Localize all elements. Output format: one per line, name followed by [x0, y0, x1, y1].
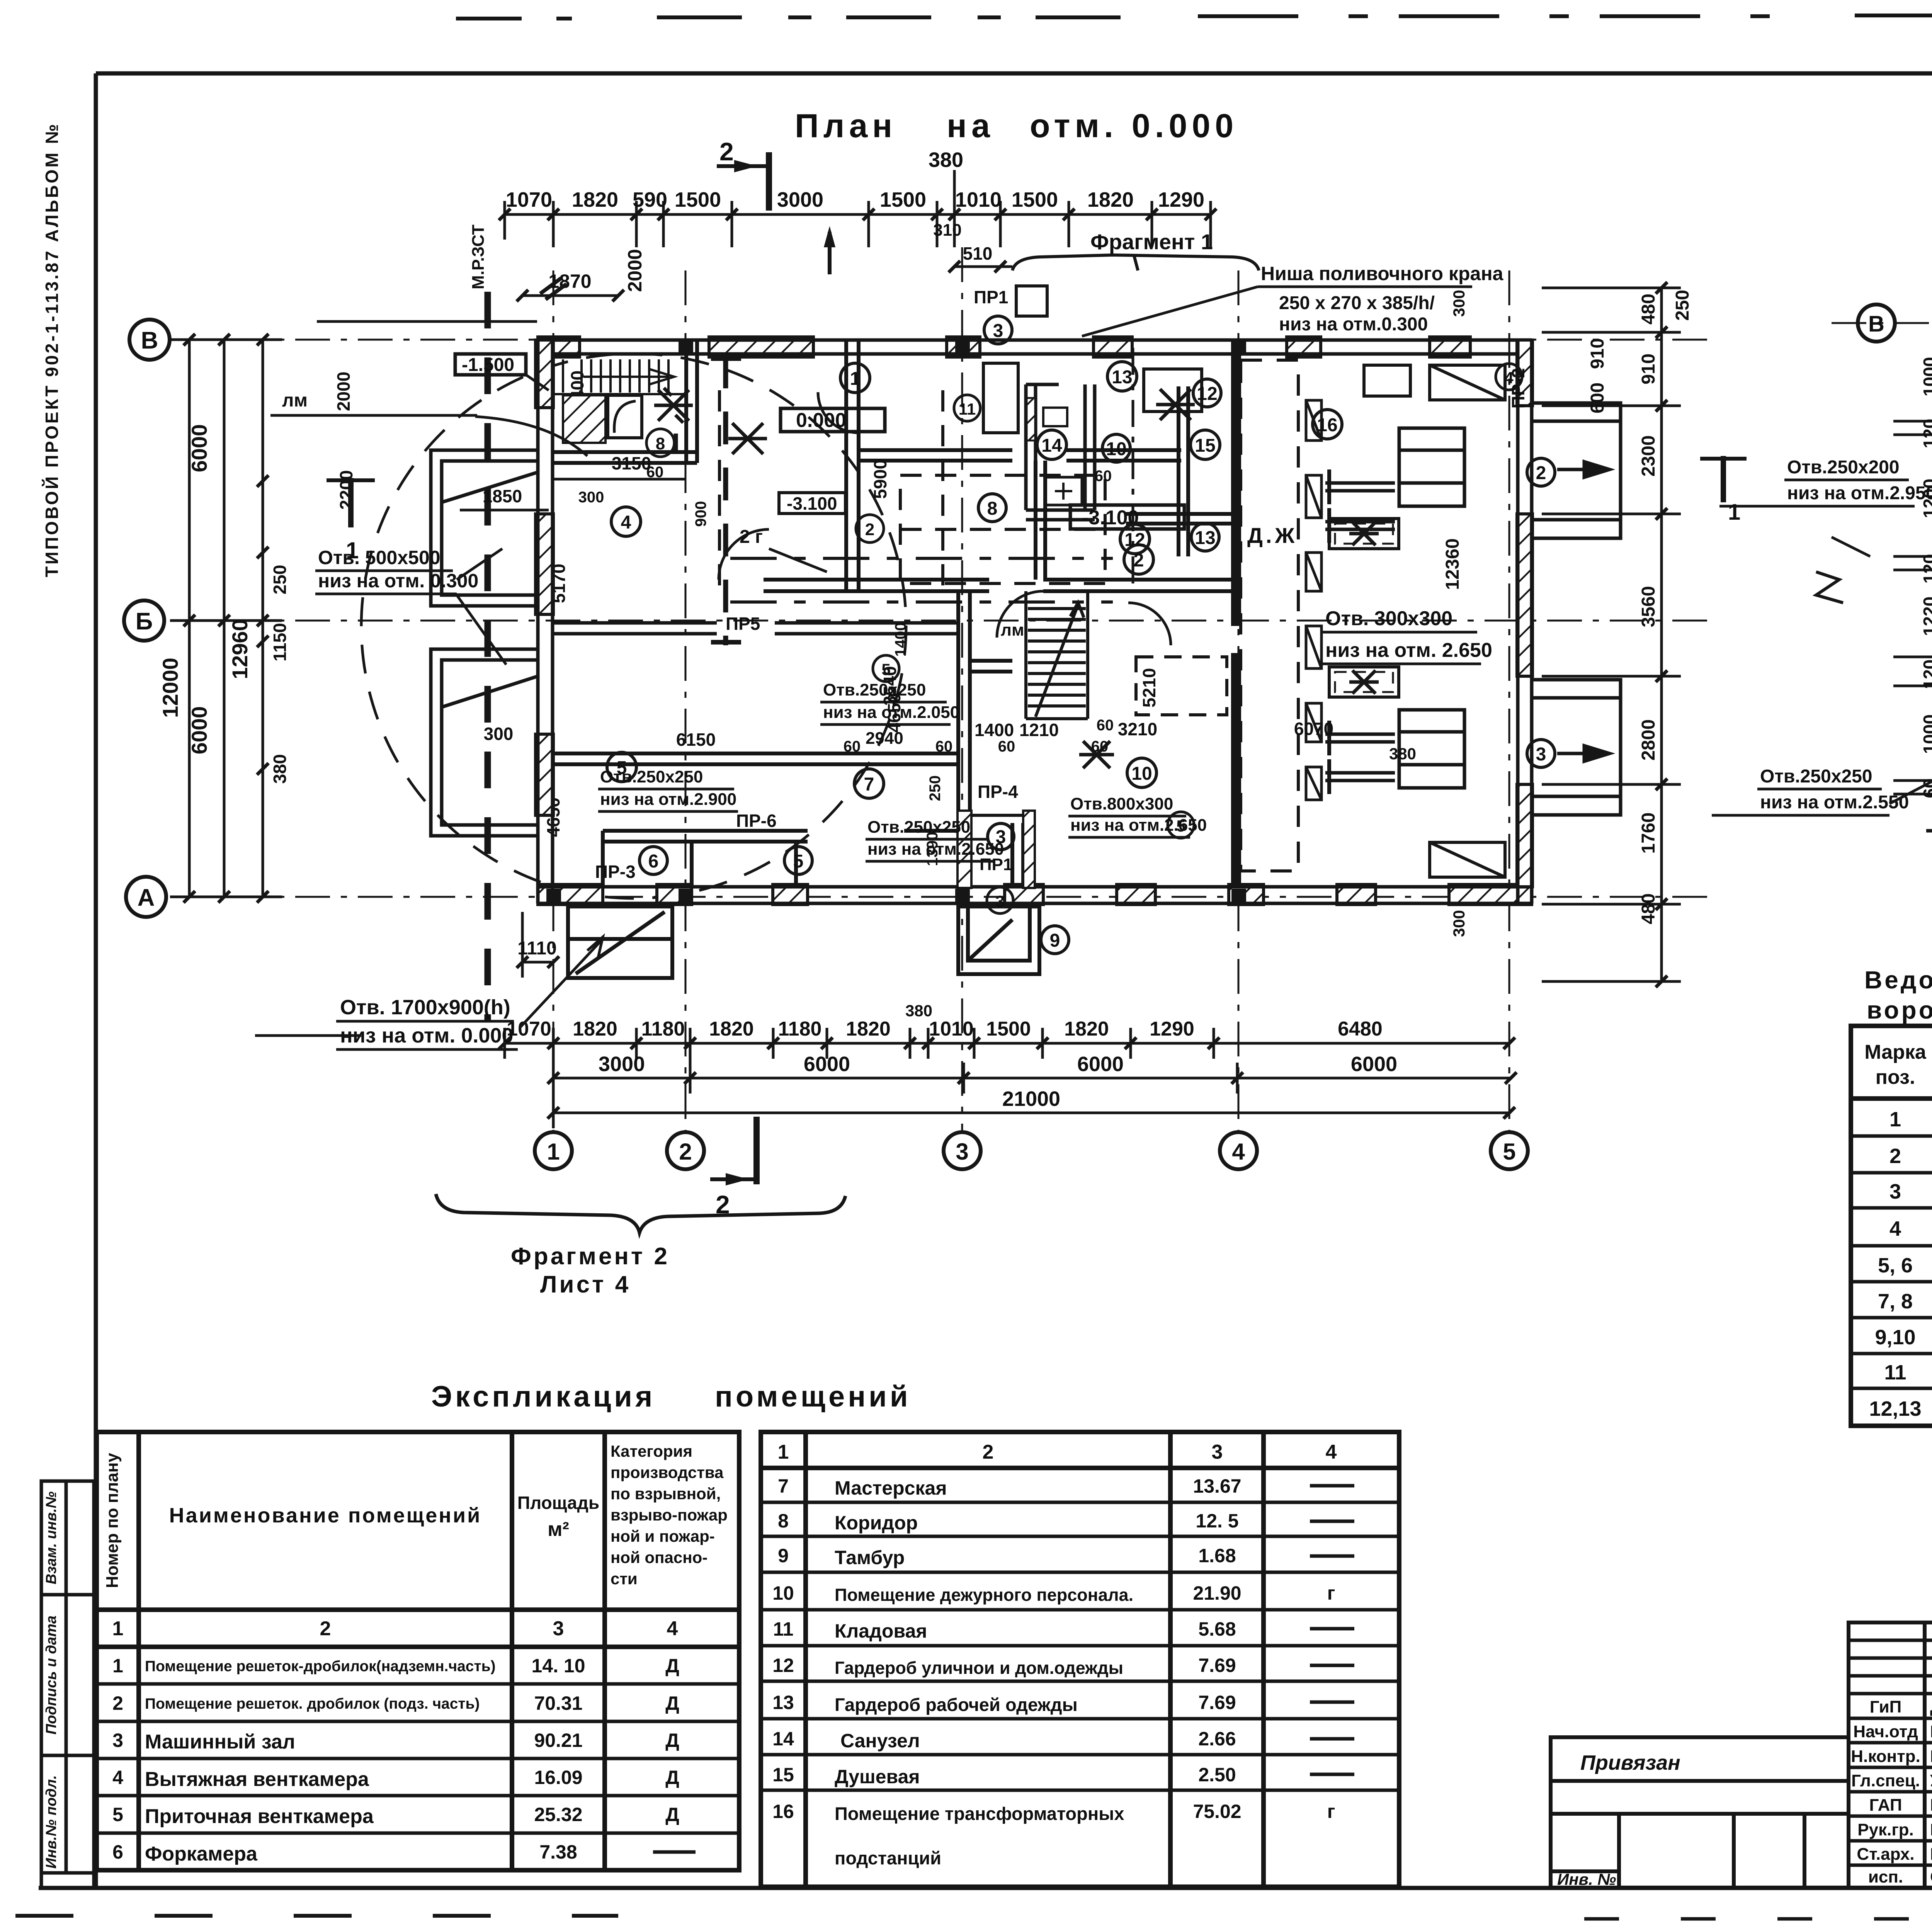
svg-text:300: 300: [484, 724, 514, 744]
svg-text:60: 60: [1091, 738, 1109, 755]
svg-text:1820: 1820: [846, 1018, 891, 1040]
svg-text:Гардероб уличнои и дом.одеж: Гардероб уличнои и дом.одежды: [835, 1658, 1123, 1678]
svg-text:ПР5: ПР5: [726, 614, 760, 634]
porch ramp lower: [1532, 680, 1621, 815]
section mark 2 bottom: [710, 1117, 757, 1219]
svg-text:1: 1: [850, 369, 861, 389]
svg-text:1820: 1820: [1064, 1018, 1109, 1040]
svg-text:1: 1: [778, 1441, 789, 1463]
svg-text:Ниша поливочного крана: Ниша поливочного крана: [1261, 263, 1504, 284]
svg-text:3000: 3000: [599, 1053, 645, 1076]
svg-text:480: 480: [1638, 893, 1659, 924]
light well upper: [431, 450, 538, 606]
svg-text:120: 120: [1920, 419, 1932, 449]
svg-text:Машинный зал: Машинный зал: [145, 1731, 295, 1753]
svg-text:Смирнова: Смирнова: [1930, 1867, 1932, 1886]
grid B wall left part: [553, 623, 958, 634]
svg-text:2.66: 2.66: [1198, 1728, 1236, 1750]
svg-text:0.000: 0.000: [796, 409, 846, 432]
tambour 9 piers: [957, 811, 971, 888]
svg-text:13: 13: [772, 1692, 794, 1713]
svg-text:Б: Б: [136, 608, 153, 635]
svg-text:Курленко: Курленко: [1930, 1747, 1932, 1766]
svg-text:3: 3: [112, 1730, 123, 1751]
interior small dims: [483, 453, 1333, 750]
svg-text:5, 6: 5, 6: [1878, 1254, 1913, 1277]
svg-text:1010: 1010: [929, 1018, 974, 1040]
svg-text:производства: производства: [611, 1463, 724, 1481]
dim 1870 top-left: [522, 294, 618, 297]
crane rail dashed lines: [730, 557, 1113, 560]
porch ramp upper: [1532, 403, 1621, 538]
svg-text:1210: 1210: [1019, 720, 1059, 740]
svg-text:ПР-3: ПР-3: [595, 862, 636, 882]
extra partitions rooms 12-15: [970, 386, 1233, 672]
svg-text:Категория: Категория: [611, 1442, 692, 1460]
svg-text:Площадь: Площадь: [517, 1493, 599, 1513]
svg-text:9: 9: [778, 1545, 789, 1566]
svg-text:510: 510: [963, 243, 993, 264]
svg-text:2000: 2000: [624, 249, 646, 292]
grid circle 1: [535, 1132, 572, 1169]
svg-text:отм. 0.000: отм. 0.000: [1030, 107, 1238, 145]
svg-text:1: 1: [1889, 1108, 1901, 1131]
svg-text:16: 16: [772, 1801, 794, 1822]
svg-text:120: 120: [1920, 554, 1932, 584]
svg-text:Отв.250х250: Отв.250х250: [823, 680, 926, 699]
svg-text:низ на отм. 0.300: низ на отм. 0.300: [318, 570, 478, 592]
svg-text:3210: 3210: [1118, 719, 1157, 739]
svg-text:250: 250: [927, 776, 944, 801]
svg-text:низ на отм.0.300: низ на отм.0.300: [1279, 314, 1428, 335]
top dimension chain: [505, 170, 1211, 247]
cellar entrance bottom left: [568, 906, 672, 978]
svg-text:7.69: 7.69: [1198, 1655, 1236, 1676]
dashed partition near cells: [1132, 348, 1134, 591]
svg-text:Фрагмент 2: Фрагмент 2: [511, 1243, 670, 1270]
left wall: [536, 340, 553, 903]
svg-text:2: 2: [865, 520, 874, 539]
grid circle Б: [124, 600, 164, 641]
svg-text:Помещение трансформаторных: Помещение трансформаторных: [835, 1803, 1124, 1824]
svg-text:1290: 1290: [1158, 188, 1204, 211]
svg-text:300: 300: [578, 489, 604, 506]
internal wall grid3 vertical upper: [846, 340, 859, 591]
room2 dashed pit outline: [718, 390, 721, 585]
small wc in stair room: [608, 395, 642, 438]
svg-text:5900: 5900: [870, 459, 890, 499]
small rooms bottom-left walls: [603, 831, 958, 887]
svg-text:5210: 5210: [1139, 668, 1159, 707]
main title: [795, 107, 1238, 145]
svg-text:13: 13: [1112, 367, 1132, 388]
svg-text:Краснов: Краснов: [1930, 1820, 1932, 1839]
svg-text:11: 11: [1884, 1361, 1906, 1384]
svg-text:1290: 1290: [1150, 1018, 1194, 1040]
svg-text:6070: 6070: [1294, 719, 1333, 739]
svg-text:480: 480: [1638, 294, 1659, 325]
svg-text:ТИПОВОЙ ПРОЕКТ 902-1-113.87 А: ТИПОВОЙ ПРОЕКТ 902-1-113.87 АЛЬБОМ №: [42, 122, 62, 577]
paper edge artifact top: [456, 15, 1932, 19]
svg-text:Костин: Костин: [1930, 1796, 1932, 1815]
svg-text:3: 3: [993, 321, 1003, 341]
extra door circles bottom: [987, 887, 1013, 913]
svg-text:60: 60: [998, 738, 1015, 755]
svg-text:75.02: 75.02: [1193, 1801, 1241, 1822]
stair room top-left: [553, 340, 697, 463]
svg-text:ворот и дверей: ворот и дверей: [1867, 996, 1932, 1024]
svg-text:Вытяжная венткамера: Вытяжная венткамера: [145, 1768, 369, 1791]
section mark 1 left: [348, 478, 354, 527]
svg-text:600: 600: [1587, 383, 1608, 413]
svg-text:5.68: 5.68: [1198, 1618, 1236, 1640]
svg-text:7: 7: [778, 1475, 789, 1497]
svg-text:15: 15: [772, 1764, 794, 1786]
svg-text:Помещение дежурного персонала.: Помещение дежурного персонала.: [835, 1585, 1133, 1605]
svg-text:Мастерская: Мастерская: [835, 1477, 947, 1499]
bottom chain 3000/6000: [553, 1063, 1511, 1094]
svg-text:7.38: 7.38: [539, 1841, 577, 1863]
svg-text:2000: 2000: [333, 372, 354, 411]
svg-text:4: 4: [1326, 1441, 1337, 1463]
svg-text:10: 10: [772, 1582, 794, 1604]
svg-text:низ на отм.2.950: низ на отм.2.950: [1787, 483, 1932, 503]
extra circled door marks: [646, 429, 674, 457]
svg-text:План: План: [795, 107, 897, 145]
svg-text:12360: 12360: [1442, 538, 1463, 590]
svg-text:низ на отм.2.900: низ на отм.2.900: [600, 790, 736, 809]
svg-text:поз.: поз.: [1876, 1066, 1915, 1088]
paper edge artifact bottom: [15, 1914, 618, 1918]
svg-text:10: 10: [1106, 439, 1126, 459]
pump unit B: [1325, 710, 1464, 794]
svg-text:Д.Ж: Д.Ж: [1247, 523, 1298, 548]
corridor wall x2620: [1012, 823, 1023, 887]
svg-text:1820: 1820: [573, 1018, 617, 1040]
signature table: [1849, 1622, 1932, 1888]
svg-text:300: 300: [1450, 290, 1468, 317]
svg-text:1220: 1220: [1920, 597, 1932, 636]
svg-text:Коридор: Коридор: [835, 1512, 918, 1534]
left explication table: [97, 1432, 739, 1870]
trans substation dashed cells: [1241, 360, 1298, 871]
svg-text:250 х 270 х 385/h/: 250 х 270 х 385/h/: [1279, 293, 1435, 313]
svg-text:21000: 21000: [1002, 1087, 1060, 1111]
svg-text:12960: 12960: [228, 619, 252, 679]
svg-text:3: 3: [995, 892, 1004, 910]
svg-text:2300: 2300: [1638, 435, 1659, 477]
svg-text:6000: 6000: [804, 1053, 850, 1076]
svg-text:1000: 1000: [1920, 357, 1932, 396]
svg-text:Экспликация: Экспликация: [431, 1380, 655, 1413]
svg-text:Отв.250х250: Отв.250х250: [1760, 766, 1872, 787]
svg-text:12: 12: [772, 1655, 794, 1676]
svg-text:Тамбур: Тамбур: [835, 1547, 905, 1568]
svg-text:Отв.800х300: Отв.800х300: [1070, 794, 1173, 813]
svg-text:1: 1: [547, 1139, 560, 1165]
heavy dashed boundary line: [485, 292, 491, 1020]
lower flight hatched: [563, 395, 605, 443]
door swing arcs: [719, 392, 1171, 645]
bottom dimension chain detail: [505, 1028, 1509, 1128]
right wall: [1517, 340, 1532, 903]
svg-text:2: 2: [983, 1441, 994, 1463]
svg-text:5: 5: [793, 851, 804, 872]
vent benches: [1329, 519, 1399, 549]
svg-text:2.50: 2.50: [1198, 1764, 1236, 1786]
svg-text:Ст.арх.: Ст.арх.: [1857, 1845, 1914, 1864]
svg-text:лм: лм: [282, 390, 308, 411]
svg-text:11: 11: [959, 400, 976, 418]
svg-text:сти: сти: [611, 1570, 638, 1588]
section mark 2 top: [717, 137, 769, 211]
svg-text:2 г: 2 г: [740, 527, 763, 547]
svg-text:90.21: 90.21: [534, 1730, 582, 1751]
svg-text:4: 4: [621, 512, 631, 533]
svg-text:1500: 1500: [1012, 188, 1058, 211]
svg-text:1.68: 1.68: [1198, 1545, 1236, 1566]
svg-text:г: г: [1327, 1582, 1335, 1604]
stair center-bottom: [1026, 591, 1088, 719]
svg-text:Привязан: Привязан: [1580, 1751, 1680, 1774]
grid circle 5: [1491, 1132, 1528, 1169]
svg-text:6: 6: [648, 851, 659, 872]
stair treads: [554, 359, 686, 394]
svg-text:8: 8: [656, 434, 665, 453]
svg-text:Рук.гр.: Рук.гр.: [1857, 1820, 1914, 1839]
grid axis lines horizontal А Б В: [170, 340, 1712, 897]
svg-text:ПР-2: ПР-2: [1508, 368, 1528, 409]
svg-text:1850: 1850: [483, 486, 522, 506]
corridor wall horizontal mid: [764, 580, 1231, 591]
svg-text:Инв.№ подл.: Инв.№ подл.: [43, 1775, 60, 1869]
svg-text:низ на отм.2.650: низ на отм.2.650: [867, 840, 1004, 859]
svg-text:2: 2: [320, 1617, 331, 1640]
svg-text:8: 8: [778, 1510, 789, 1532]
svg-text:Марка: Марка: [1864, 1041, 1927, 1063]
svg-text:3: 3: [1212, 1441, 1223, 1463]
svg-text:подстанций: подстанций: [835, 1848, 941, 1868]
svg-text:6150: 6150: [676, 730, 716, 750]
svg-text:3: 3: [1889, 1180, 1901, 1203]
svg-text:низ на отм.2.650: низ на отм.2.650: [1070, 816, 1207, 835]
svg-text:3: 3: [956, 1139, 968, 1165]
svg-text:12000: 12000: [158, 658, 182, 718]
svg-text:Нач.отд: Нач.отд: [1853, 1722, 1918, 1741]
svg-text:лм: лм: [1001, 621, 1024, 639]
svg-text:2: 2: [1536, 463, 1546, 483]
svg-text:1820: 1820: [572, 188, 618, 211]
svg-text:Д: Д: [665, 1655, 679, 1677]
svg-text:8: 8: [987, 498, 998, 519]
vent cross symbols: [654, 388, 1379, 768]
fragment section mark 1: [1721, 456, 1726, 502]
svg-text:1820: 1820: [709, 1018, 754, 1040]
svg-text:Фрагмент 1: Фрагмент 1: [1090, 230, 1213, 254]
svg-text:А: А: [138, 884, 155, 911]
svg-text:4: 4: [1889, 1217, 1901, 1240]
svg-text:380: 380: [905, 1002, 932, 1020]
svg-text:Отв. 1700х900(h): Отв. 1700х900(h): [340, 996, 510, 1019]
svg-text:300: 300: [1450, 910, 1468, 937]
svg-text:Гардероб рабочей одежды: Гардероб рабочей одежды: [835, 1694, 1078, 1715]
svg-text:4: 4: [667, 1617, 678, 1640]
svg-text:исп.: исп.: [1868, 1867, 1903, 1886]
strong wall grid near x2900: [1231, 340, 1241, 626]
grid circle 3: [944, 1132, 981, 1169]
svg-text:1760: 1760: [1638, 813, 1659, 854]
svg-text:6000: 6000: [1351, 1053, 1397, 1076]
svg-text:60: 60: [935, 738, 953, 755]
right explication table: [761, 1432, 1399, 1887]
svg-text:м²: м²: [548, 1518, 569, 1541]
svg-text:-1.500: -1.500: [462, 355, 514, 375]
wc cluster rooms 14/10: [1026, 384, 1095, 520]
svg-text:310: 310: [933, 221, 961, 240]
svg-text:16: 16: [1317, 415, 1337, 435]
svg-text:Отв.250х250: Отв.250х250: [867, 818, 970, 837]
svg-text:120: 120: [1920, 660, 1932, 689]
svg-text:380: 380: [270, 754, 290, 784]
svg-text:1: 1: [1728, 500, 1740, 525]
svg-text:Давыдова: Давыдова: [1930, 1697, 1932, 1716]
svg-text:Д: Д: [665, 1692, 679, 1714]
grid circle 4: [1220, 1132, 1257, 1169]
svg-text:2: 2: [1889, 1145, 1901, 1168]
svg-text:910: 910: [1638, 354, 1659, 384]
svg-text:Отв.250х200: Отв.250х200: [1787, 457, 1900, 478]
fragment bottom lines: [1926, 796, 1932, 844]
svg-text:7.69: 7.69: [1198, 1692, 1236, 1713]
svg-text:Приточная венткамера: Приточная венткамера: [145, 1805, 374, 1828]
svg-text:Гл.спец.: Гл.спец.: [1851, 1771, 1920, 1790]
svg-text:Форкамера: Форкамера: [145, 1843, 258, 1865]
svg-text:250: 250: [1672, 290, 1693, 321]
areaway pit bottom center: [958, 906, 1039, 974]
svg-text:380: 380: [929, 148, 963, 172]
svg-text:1820: 1820: [1087, 188, 1134, 211]
bottom wall: [538, 884, 1532, 905]
grid circle В: [129, 320, 170, 360]
light well lower: [431, 649, 538, 836]
svg-text:4: 4: [1232, 1139, 1245, 1165]
svg-text:1400: 1400: [892, 622, 909, 657]
fragment grid axis В: [1832, 322, 1932, 324]
svg-text:ной опасно-: ной опасно-: [611, 1548, 707, 1566]
svg-text:3560: 3560: [1638, 586, 1659, 628]
svg-text:Душевая: Душевая: [835, 1766, 920, 1787]
svg-text:Д: Д: [665, 1804, 679, 1825]
svg-text:380: 380: [1389, 745, 1416, 763]
svg-text:низ на отм. 2.650: низ на отм. 2.650: [1325, 639, 1492, 662]
svg-text:Отв.250х250: Отв.250х250: [600, 767, 703, 786]
svg-text:3: 3: [1536, 744, 1546, 765]
second elevation box -3.100: [779, 493, 845, 514]
svg-text:6000: 6000: [187, 706, 211, 755]
svg-text:3150: 3150: [612, 453, 651, 473]
grid axis lines vertical 1-5: [553, 247, 1509, 1130]
opening leader texts: [318, 547, 1492, 1047]
right dim chain of plan: [1542, 288, 1681, 981]
svg-text:250: 250: [270, 565, 290, 595]
svg-text:Подпись и дата: Подпись и дата: [43, 1616, 60, 1735]
svg-text:2: 2: [112, 1692, 123, 1714]
svg-text:1070: 1070: [506, 188, 552, 211]
svg-text:Д: Д: [665, 1767, 679, 1788]
svg-text:60: 60: [1095, 468, 1112, 485]
svg-text:1010: 1010: [955, 188, 1002, 211]
svg-text:ПР-4: ПР-4: [978, 782, 1018, 802]
svg-text:14: 14: [772, 1728, 794, 1750]
svg-text:3540: 3540: [880, 666, 900, 706]
svg-text:1500: 1500: [675, 188, 721, 211]
svg-text:12: 12: [1124, 530, 1145, 550]
svg-text:7, 8: 7, 8: [1878, 1290, 1913, 1313]
svg-text:7: 7: [864, 774, 874, 795]
svg-text:взрыво-пожар: взрыво-пожар: [611, 1506, 728, 1524]
svg-text:1400: 1400: [975, 720, 1014, 740]
svg-text:900: 900: [692, 501, 709, 527]
svg-text:2: 2: [719, 137, 734, 166]
svg-text:Кладовая: Кладовая: [835, 1620, 927, 1642]
big dashed excavation circle: [361, 354, 906, 898]
svg-text:6480: 6480: [1338, 1018, 1383, 1040]
svg-text:70.31: 70.31: [534, 1692, 582, 1714]
bottom chain 21000: [553, 1112, 1509, 1114]
svg-text:г: г: [1327, 1801, 1335, 1822]
svg-text:13: 13: [1195, 528, 1215, 548]
north arrow: [828, 232, 832, 274]
svg-text:ГАП: ГАП: [1869, 1796, 1902, 1815]
svg-text:Манкаускас: Манкаускас: [1930, 1722, 1932, 1741]
svg-text:60: 60: [844, 738, 861, 755]
svg-text:Д: Д: [665, 1730, 679, 1751]
leader arrows inside: [1832, 537, 1870, 556]
dim 1110 bottom-left: [522, 961, 553, 964]
brace fragment 2: [436, 1194, 845, 1233]
svg-text:ной и пожар-: ной и пожар-: [611, 1527, 715, 1545]
svg-text:13.67: 13.67: [1193, 1475, 1241, 1497]
svg-text:низ на отм. 0.000: низ на отм. 0.000: [340, 1024, 513, 1047]
svg-text:15: 15: [1195, 435, 1215, 456]
svg-text:6: 6: [112, 1841, 123, 1863]
room number circles: [607, 316, 1342, 954]
room 4/5 divider horizontal: [553, 753, 958, 764]
svg-text:14: 14: [1041, 435, 1062, 456]
svg-text:1180: 1180: [778, 1018, 822, 1040]
svg-text:6000: 6000: [187, 424, 211, 473]
column squares on grid: [546, 340, 1246, 903]
closet dashed rects: [983, 363, 1227, 715]
wall below room1: [859, 450, 1181, 461]
svg-text:5: 5: [112, 1804, 123, 1825]
svg-text:590: 590: [633, 188, 667, 211]
svg-text:В: В: [1868, 311, 1884, 337]
left dimension chain lines: [170, 340, 282, 897]
svg-text:-3.100: -3.100: [787, 493, 837, 514]
svg-text:по взрывной,: по взрывной,: [611, 1485, 721, 1503]
svg-text:5: 5: [1503, 1139, 1515, 1165]
svg-text:3000: 3000: [777, 188, 823, 211]
svg-text:9: 9: [1050, 930, 1060, 951]
elevation box -3.100: [1070, 505, 1184, 529]
svg-text:11: 11: [773, 1618, 794, 1640]
svg-text:1150: 1150: [270, 623, 290, 662]
svg-text:ГиП: ГиП: [1870, 1697, 1902, 1716]
svg-text:Отв. 500х500: Отв. 500х500: [318, 547, 440, 568]
svg-text:16.09: 16.09: [534, 1767, 582, 1788]
svg-text:ПР-6: ПР-6: [736, 811, 777, 831]
